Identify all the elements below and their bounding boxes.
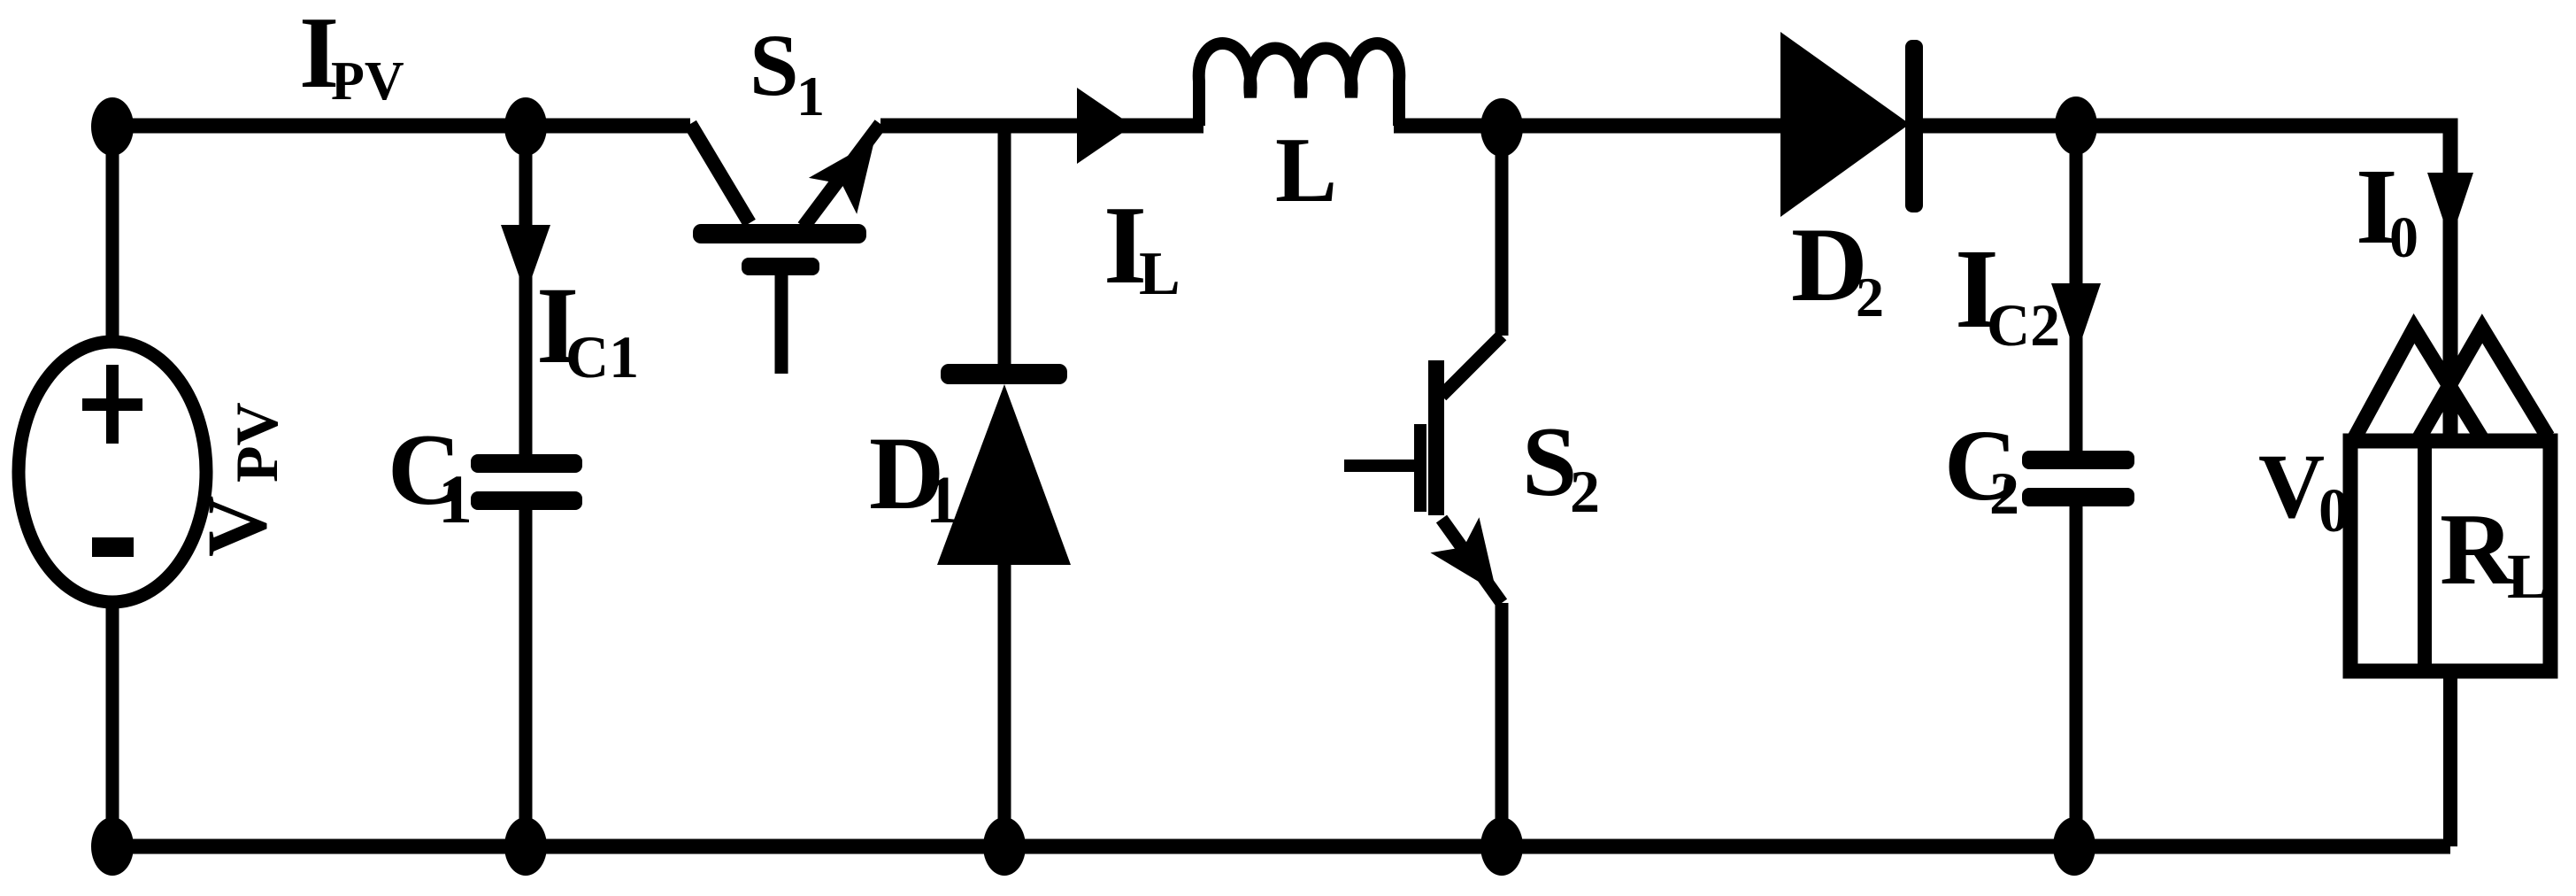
node top C1 <box>504 97 547 156</box>
label I_C1 <box>536 265 639 390</box>
wire source top <box>106 126 119 345</box>
svg-text:2: 2 <box>1856 266 1884 328</box>
svg-text:L: L <box>2507 541 2549 612</box>
node bottom-left <box>91 817 134 876</box>
svg-text:1: 1 <box>926 463 959 537</box>
wire bottom <box>112 839 2450 854</box>
label V_0 <box>2258 436 2349 545</box>
label S1 <box>750 16 825 127</box>
node bottom C2 <box>2053 817 2095 876</box>
svg-text:C2: C2 <box>1987 291 2060 359</box>
label R_L <box>2440 493 2549 612</box>
voltage source V_PV <box>19 342 206 602</box>
svg-text:2: 2 <box>1570 458 1600 525</box>
label I_PV <box>299 0 404 112</box>
wire load bottom <box>2443 669 2457 846</box>
svg-text:L: L <box>1275 118 1337 221</box>
svg-text:L: L <box>1139 240 1180 308</box>
label V_PV <box>189 402 290 557</box>
svg-text:V: V <box>189 496 284 557</box>
svg-text:S: S <box>750 16 799 114</box>
label S2 <box>1522 407 1600 525</box>
svg-text:V: V <box>2258 436 2325 537</box>
current arrow I_L <box>1077 88 1133 164</box>
current arrow I_0 <box>2427 173 2473 242</box>
capacitor C1 <box>471 454 582 510</box>
svg-text:1: 1 <box>796 65 825 127</box>
svg-text:S: S <box>1522 407 1577 517</box>
node L right <box>1480 98 1523 157</box>
svg-text:PV: PV <box>223 402 290 483</box>
node top C2 <box>2055 97 2097 155</box>
svg-text:C1: C1 <box>565 323 639 390</box>
diode D1 <box>937 126 1071 846</box>
wire source bottom <box>106 602 119 846</box>
node top-left <box>91 97 134 156</box>
label C2 <box>1944 409 2019 527</box>
wire C2 branch <box>2070 126 2083 846</box>
node bottom C1 <box>504 817 547 876</box>
label I_0 <box>2356 147 2418 270</box>
wire top inductor-right <box>1394 119 1784 134</box>
wire top middle <box>880 119 1203 134</box>
inductor L <box>1199 43 1400 126</box>
current arrow I_C2 <box>2051 283 2101 356</box>
svg-text:R: R <box>2440 493 2515 606</box>
transistor S1 <box>690 123 898 374</box>
svg-text:1: 1 <box>438 460 473 537</box>
transistor S2 <box>1344 127 1521 846</box>
node bottom D1 <box>983 817 1026 876</box>
load R_L <box>2350 328 2550 671</box>
node bottom S2 <box>1480 817 1523 876</box>
wire top left segment <box>112 119 690 134</box>
wire top right corner <box>2076 126 2450 443</box>
wire C1 branch <box>519 126 533 846</box>
diode D2 <box>1780 32 2077 217</box>
current arrow I_C1 <box>501 225 550 295</box>
svg-text:0: 0 <box>2389 205 2418 270</box>
label D1 <box>869 415 959 537</box>
capacitor C2 <box>2022 451 2134 506</box>
svg-text:0: 0 <box>2318 477 2349 545</box>
label D2 <box>1791 205 1884 328</box>
label C1 <box>388 413 473 537</box>
label I_C2 <box>1955 226 2060 359</box>
svg-text:2: 2 <box>1989 460 2019 527</box>
svg-text:PV: PV <box>331 51 404 112</box>
label I_L <box>1103 184 1180 308</box>
